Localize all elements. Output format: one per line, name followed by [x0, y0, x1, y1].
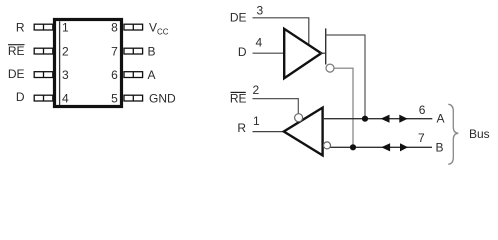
svg-text:DE: DE	[230, 11, 247, 25]
node junction dot on A	[362, 116, 368, 122]
svg-text:D: D	[238, 45, 247, 59]
svg-text:7: 7	[111, 44, 118, 58]
IC package U1 body	[55, 20, 122, 107]
bus arrow left on B	[381, 143, 390, 151]
svg-text:D: D	[16, 90, 25, 104]
wire R (pin 1 net)	[253, 131, 285, 133]
pin 4 stub	[34, 95, 53, 101]
driver inverting bubble	[326, 64, 334, 72]
pin 1 stub	[34, 24, 53, 30]
svg-text:RE: RE	[230, 92, 247, 106]
wire driver noninverting output to A	[326, 35, 365, 119]
wire bus line A	[323, 118, 433, 120]
svg-text:Bus: Bus	[469, 127, 490, 141]
svg-text:6: 6	[419, 103, 426, 117]
IC pin-1 side bevel line	[59, 21, 61, 105]
pin 2 stub	[34, 48, 53, 54]
wire apex to bar	[320, 52, 326, 54]
wire DE (pin 3 net)	[253, 18, 309, 46]
svg-text:1: 1	[253, 114, 260, 128]
svg-text:5: 5	[111, 91, 118, 105]
RE-bar overline	[231, 91, 246, 93]
svg-text:RE: RE	[8, 44, 25, 58]
pin 5 stub	[124, 95, 143, 101]
wire RE (pin 2 net)	[253, 99, 299, 114]
pin 3 stub	[34, 72, 53, 78]
bus arrow right on A	[399, 115, 407, 123]
svg-text:B: B	[436, 141, 444, 155]
svg-text:1: 1	[62, 20, 69, 34]
svg-text:7: 7	[418, 131, 425, 145]
svg-text:A: A	[437, 112, 445, 126]
receiver U1b triangle	[284, 108, 323, 156]
wire bus line B	[330, 146, 432, 148]
svg-text:DE: DE	[8, 67, 25, 81]
svg-text:8: 8	[111, 20, 118, 34]
svg-text:GND: GND	[149, 91, 176, 105]
svg-text:2: 2	[253, 83, 260, 97]
node junction dot on B	[350, 144, 356, 150]
svg-text:VCC: VCC	[149, 20, 169, 36]
svg-text:R: R	[16, 20, 25, 34]
svg-text:R: R	[237, 121, 246, 135]
svg-text:4: 4	[62, 91, 69, 105]
svg-text:2: 2	[62, 44, 69, 58]
svg-text:A: A	[148, 68, 156, 82]
pin 8 stub	[124, 24, 143, 30]
receiver inverting input bubble (B side)	[324, 142, 331, 149]
svg-text:6: 6	[111, 68, 118, 82]
svg-text:4: 4	[256, 35, 263, 49]
svg-text:3: 3	[257, 3, 264, 17]
bus brace	[448, 104, 458, 164]
driver U1a triangle	[284, 29, 321, 78]
receiver enable bubble (RE)	[295, 114, 303, 122]
RE-bar overline (pin 2)	[8, 44, 25, 46]
driver output bar	[325, 28, 327, 64]
pin 6 stub	[124, 72, 143, 78]
wire D (pin 4 net)	[253, 52, 285, 54]
wire driver inverting output to B	[334, 68, 353, 147]
bus arrow right on B	[400, 143, 408, 151]
bus arrow left on A	[381, 115, 390, 123]
svg-text:B: B	[148, 44, 156, 58]
svg-text:3: 3	[62, 68, 69, 82]
pin 7 stub	[124, 48, 143, 54]
